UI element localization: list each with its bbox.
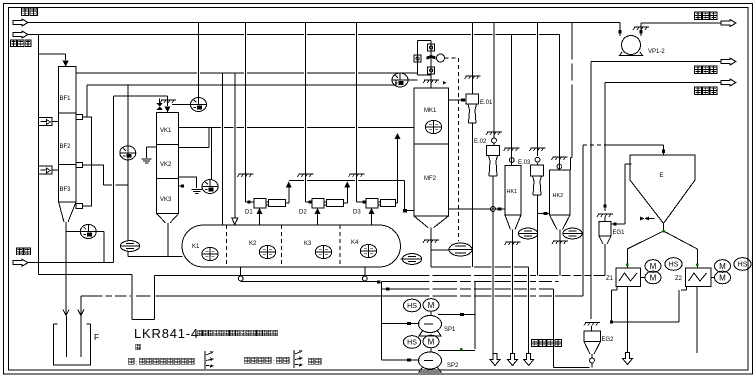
- wire steam drop D3: [357, 23, 366, 203]
- motor M SP1: [423, 299, 439, 312]
- agitator K4: [360, 244, 376, 257]
- wire vent3 drop to EG1: [604, 83, 606, 222]
- wire MF2 to HK1 feed: [449, 208, 506, 210]
- mash inlet arrow: [13, 259, 28, 266]
- blower D1: [254, 199, 266, 209]
- svg-text:E.01: E.01: [480, 100, 493, 106]
- wire BF top vapor line y73: [76, 72, 418, 74]
- wire bus y267 MF2 outlet: [431, 267, 529, 355]
- spray symbol 1: [205, 351, 213, 369]
- valve at E cone: [640, 217, 649, 221]
- wire bus y289: [381, 289, 592, 368]
- svg-text:BF2: BF2: [60, 144, 72, 150]
- wire discharge header y180.5 to MF2: [289, 181, 414, 211]
- svg-text:LKR841-4: LKR841-4: [134, 326, 199, 341]
- wire D3 discharge riser to MK1: [396, 139, 398, 203]
- wire riser x583: [582, 145, 584, 296]
- svg-text:D1: D1: [245, 210, 253, 216]
- control valve with actuator: [427, 55, 436, 60]
- silo E: [630, 155, 695, 224]
- note signal text: [244, 357, 289, 366]
- wire Z1 underflow: [627, 287, 629, 355]
- svg-text:BF3: BF3: [60, 187, 72, 193]
- motor M Z1 top: [645, 260, 661, 273]
- wire D3 suction: [371, 213, 373, 225]
- pump VP1-2: [622, 36, 641, 55]
- svg-text:K4: K4: [351, 240, 359, 246]
- wire BF bottom outlet pipe: [65, 222, 67, 315]
- ejector E01: [466, 94, 479, 104]
- tank F: [54, 324, 91, 365]
- hatch above EG2: [584, 323, 600, 326]
- label vent 2: [694, 66, 717, 74]
- wire MF2 outlet: [430, 228, 432, 267]
- wire VK2 stub: [179, 128, 209, 148]
- column VK1-VK3: [157, 112, 179, 213]
- wire Z1 side outlet: [612, 287, 679, 323]
- cooling water inlet arrow: [13, 31, 28, 38]
- divider K1/K2: [225, 225, 227, 267]
- svg-text:SP1: SP1: [444, 327, 456, 333]
- wire vent 2: [591, 61, 721, 63]
- svg-text:D2: D2: [299, 210, 307, 216]
- wire steam to E01: [472, 23, 474, 95]
- wire D1 discharge riser: [286, 187, 289, 203]
- node fork green: [662, 230, 665, 233]
- wire steam to E03: [537, 23, 539, 166]
- wire vent 3: [605, 82, 721, 84]
- wire Z2 side outlet: [679, 287, 687, 323]
- steam drop to ejector circle: [198, 23, 200, 98]
- wire MK1 to E01: [449, 99, 467, 101]
- svg-text:EG1: EG1: [613, 230, 626, 236]
- agitator MK1: [425, 120, 441, 133]
- wire D2 discharge riser: [344, 187, 348, 203]
- screen Z1: [616, 268, 641, 287]
- switch HS SP2: [403, 336, 420, 349]
- wire branch down to pump2: [211, 128, 213, 181]
- wire steam drop D2: [305, 23, 312, 203]
- motor M Z1 bottom: [645, 271, 661, 284]
- wire steam to E02: [493, 23, 495, 146]
- label mash: [16, 248, 30, 255]
- instrument HK2: [563, 228, 582, 239]
- wire circle to valve: [172, 104, 191, 106]
- pump on BF overflow drop: [127, 85, 129, 241]
- svg-text:F: F: [94, 332, 99, 342]
- wire SP1 discharge: [438, 282, 475, 350]
- note line 2: [136, 344, 140, 350]
- svg-text:BF1: BF1: [60, 96, 72, 102]
- wire steam header y22.5: [28, 22, 620, 24]
- wire SP1 suction: [381, 323, 419, 325]
- blower circle at VK top: [191, 98, 207, 112]
- spray symbol 2: [294, 350, 302, 368]
- hatch above MK1: [423, 80, 439, 83]
- condenser HK2: [550, 170, 571, 215]
- svg-text:VK1: VK1: [160, 128, 172, 134]
- hatch at VK top: [160, 100, 176, 103]
- blower D2: [312, 199, 324, 209]
- label vent 3: [694, 87, 717, 95]
- svg-text:E: E: [660, 173, 664, 179]
- blower D3: [366, 199, 378, 209]
- cyclone EG2: [584, 331, 601, 342]
- nub BF2/BF3: [76, 163, 83, 168]
- label to cooling tank: [531, 339, 561, 346]
- wire E wall tap to EG1: [611, 164, 632, 224]
- wire cw to HK1: [511, 35, 513, 166]
- wire BF overflow line y85: [87, 81, 396, 86]
- svg-text:K2: K2: [249, 241, 257, 247]
- hatch above EG1: [597, 214, 613, 217]
- screen Z2: [686, 268, 712, 287]
- label vent 1: [694, 12, 717, 20]
- pump below BF: [66, 232, 104, 263]
- wire BF nub riser to y85: [86, 85, 88, 117]
- wire bus y296: [81, 295, 583, 297]
- pump SP1: [419, 316, 442, 333]
- svg-text:Z1: Z1: [606, 276, 614, 282]
- wire E03 outlet: [538, 195, 550, 276]
- svg-text:MK1: MK1: [424, 108, 437, 114]
- column MK1/MF2: [414, 88, 449, 216]
- wire BF2/BF3 nub bracket: [83, 165, 128, 185]
- agitator K1: [202, 247, 218, 260]
- ejector E03: [531, 165, 544, 176]
- condenser HK1: [505, 165, 521, 215]
- wire mash line: [28, 96, 168, 263]
- wire SP2 suction: [381, 359, 419, 361]
- wire E02 outlet down to arrow: [492, 176, 494, 355]
- feed nozzle 2 into BF3: [39, 166, 59, 174]
- label cooling water: [10, 40, 31, 47]
- svg-text:SP2: SP2: [447, 363, 459, 369]
- motor M Z2 top: [715, 260, 731, 273]
- switch HS Z2: [734, 258, 751, 271]
- arrow into BF1 top: [63, 61, 69, 67]
- circle pump feeding MK1: [392, 73, 408, 87]
- wire bus y275.5 long: [155, 275, 606, 277]
- note trailing: [308, 358, 321, 364]
- valve station loop above MK1: [418, 40, 432, 88]
- wire branch to instrument: [431, 249, 449, 251]
- VK2 drain elbow left: [147, 147, 157, 158]
- wire branch down to SP pumps: [380, 282, 382, 361]
- MF2 cone: [414, 216, 449, 228]
- wire pipes into tank: [65, 316, 67, 357]
- feed nozzle 1 into BF2: [39, 118, 59, 126]
- svg-text:E.03: E.03: [518, 160, 531, 166]
- agitator K3: [315, 245, 331, 258]
- wire drain legs K vessel: [240, 267, 242, 282]
- wire feeds from y73 down into K: [221, 73, 223, 225]
- VK cone: [157, 214, 179, 223]
- cyclone EG1: [599, 222, 611, 237]
- svg-text:VK2: VK2: [160, 162, 172, 168]
- svg-text:VK3: VK3: [160, 197, 172, 203]
- svg-text:MF2: MF2: [424, 176, 437, 182]
- motor M SP2: [423, 335, 439, 348]
- wire E outlet fork: [627, 223, 697, 268]
- pump SP2: [419, 352, 442, 369]
- switch HS SP1: [403, 299, 420, 312]
- label steam (zhengqi): [21, 8, 37, 16]
- wire E01 outlet: [472, 123, 474, 267]
- wire cooling water header y34.5: [28, 34, 559, 36]
- wire VK outlet down to K1: [167, 223, 169, 257]
- svg-text:EG2: EG2: [602, 337, 615, 343]
- wire Z2 underflow: [696, 287, 698, 354]
- wire vent2 drop to EG2: [590, 62, 593, 332]
- wire HK2 outlet down: [559, 230, 561, 276]
- motor M Z2 bottom: [715, 271, 731, 284]
- instrument HK1: [518, 228, 537, 239]
- wire D2 suction: [317, 213, 319, 225]
- note line 3: [128, 358, 194, 367]
- instrument ellipse on line: [120, 241, 139, 252]
- divider K3/K4: [339, 225, 341, 267]
- wire cw branch to BF top: [39, 35, 66, 275]
- instrument at K right end: [401, 258, 404, 260]
- arrow into VK top: [165, 106, 171, 112]
- wire VP vent riser: [641, 23, 721, 36]
- vent arrow 2: [721, 58, 736, 65]
- wire bus y281.5 drains: [241, 281, 559, 283]
- svg-text:K3: K3: [304, 241, 312, 247]
- wire SP2 discharge: [438, 350, 475, 352]
- wire steam drop D1: [245, 23, 254, 203]
- wire dip around title: [39, 275, 155, 320]
- switch HS Z1: [665, 258, 682, 271]
- vessel K1-K4: [182, 225, 401, 267]
- ejector E02: [487, 146, 500, 156]
- VK3 drain elbow right: [179, 177, 197, 188]
- wire E feed: [605, 145, 664, 155]
- svg-text:E.02: E.02: [474, 139, 487, 145]
- svg-text:Z2: Z2: [675, 276, 683, 282]
- wire steam end drop: [619, 23, 621, 37]
- vent arrow 1: [721, 20, 736, 27]
- pump right of VK: [202, 180, 218, 194]
- steam inlet arrow: [13, 19, 28, 26]
- wire long drop from steam: [570, 23, 572, 171]
- BF cone bottom: [59, 202, 76, 222]
- svg-text:VP1-2: VP1-2: [648, 49, 665, 55]
- svg-text:K1: K1: [192, 244, 200, 250]
- wire D1 suction from K: [259, 213, 261, 225]
- column BF1-BF3 body: [59, 67, 76, 202]
- nub BF1/BF2: [76, 115, 83, 120]
- wire HK1 outlet down: [512, 230, 514, 356]
- svg-text:HK1: HK1: [507, 189, 518, 195]
- vent arrow 3: [721, 79, 736, 86]
- svg-text:HK2: HK2: [553, 193, 564, 199]
- valve at VK top: [157, 99, 163, 111]
- svg-text:D3: D3: [353, 210, 361, 216]
- wire cw end to HK2: [558, 35, 560, 171]
- wire VK1 vapor to MK1 y127.5: [179, 127, 414, 129]
- agitator K2: [259, 245, 275, 258]
- wire BF downcomer right loop: [83, 117, 92, 206]
- divider K2/K3: [280, 225, 282, 267]
